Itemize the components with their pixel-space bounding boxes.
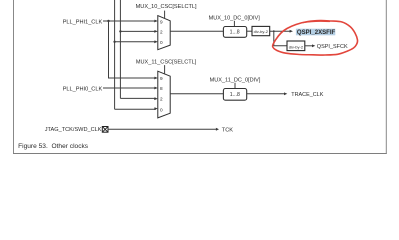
- arrowhead to QSPI_2XSFIF: [290, 30, 293, 33]
- divider box MUX_10_DC_0 (1...8): [223, 27, 246, 38]
- divider MUX_10_DC_0 tick: [233, 21, 235, 27]
- arrowhead into MUX_10 input 0: [154, 40, 158, 43]
- junction dot QSPI branch: [273, 30, 275, 32]
- wire PLL_PHI0_CLK to MUX_11 input 8: [103, 87, 156, 89]
- divider box div-by-2 (QSPI sfck): [287, 41, 305, 51]
- svg-text:TCK: TCK: [222, 127, 233, 133]
- svg-text:div-by-2: div-by-2: [289, 44, 304, 49]
- svg-text:1...8: 1...8: [230, 92, 240, 98]
- wire div-by-2 output: [270, 30, 291, 32]
- svg-text:Figure 53. Other clocks: Figure 53. Other clocks: [18, 143, 89, 150]
- junction dot PLL_PHI1_CLK tap: [107, 20, 109, 22]
- svg-text:2: 2: [160, 30, 163, 35]
- mux MUX_10 select tick: [164, 11, 166, 19]
- svg-text:div-by-2: div-by-2: [254, 29, 269, 34]
- wire v3 corner to MUX_11 input 2: [120, 97, 156, 99]
- svg-text:TRACE_CLK: TRACE_CLK: [291, 92, 323, 98]
- svg-text:QSPI_2XSFIF: QSPI_2XSFIF: [297, 30, 336, 36]
- figure frame right border: [385, 0, 387, 154]
- arrowhead into MUX_10 input 9: [154, 20, 158, 23]
- wire v3 tap to MUX_10 input 2: [120, 30, 156, 32]
- arrowhead to TCK: [216, 128, 219, 131]
- svg-text:MUX_11_DC_0[DIV]: MUX_11_DC_0[DIV]: [210, 78, 261, 84]
- arrowhead into MUX_11 input 2: [154, 97, 158, 100]
- mux MUX_10 trapezoid: [158, 16, 170, 50]
- svg-text:JTAG_TCK/SWD_CLK: JTAG_TCK/SWD_CLK: [45, 127, 102, 133]
- arrowhead to TRACE_CLK: [284, 92, 287, 95]
- figure frame bottom border: [13, 153, 387, 155]
- svg-text:MUX_11_CSC[SELCTL]: MUX_11_CSC[SELCTL]: [136, 60, 197, 66]
- svg-text:QSPI_SFCK: QSPI_SFCK: [317, 44, 348, 50]
- wire MUX_10 output to divider: [170, 30, 223, 32]
- svg-text:MUX_10_CSC[SELCTL]: MUX_10_CSC[SELCTL]: [136, 4, 197, 10]
- svg-text:9: 9: [160, 19, 163, 24]
- figure frame left border: [13, 0, 15, 154]
- wire v2 corner to MUX_11 input 0: [115, 108, 156, 110]
- wire divider to TRACE_CLK: [247, 93, 285, 95]
- svg-text:0: 0: [160, 40, 163, 45]
- arrowhead into MUX_11 input 8: [154, 87, 158, 90]
- wire JTAG_TCK/SWD_CLK to TCK: [108, 128, 216, 130]
- net bus vertical v3 (feeds input 2 of both muxes): [119, 0, 121, 98]
- divider box div-by-2 (QSPI 2x): [252, 26, 270, 35]
- svg-text:PLL_PHI0_CLK: PLL_PHI0_CLK: [63, 87, 103, 93]
- svg-text:2: 2: [160, 97, 163, 102]
- wire branch down to second div-by-2: [274, 31, 287, 46]
- annotation red ellipse around QSPI outputs: [273, 21, 358, 55]
- wire second div-by-2 to QSPI_SFCK: [305, 45, 312, 47]
- svg-text:PLL_PHI1_CLK: PLL_PHI1_CLK: [63, 20, 103, 26]
- highlight behind QSPI_2XSFIF: [296, 29, 335, 36]
- mux MUX_11 trapezoid: [158, 71, 170, 118]
- annotation red ellipse stroke overlap: [303, 21, 330, 22]
- svg-text:8: 8: [160, 86, 163, 91]
- svg-text:1...8: 1...8: [230, 29, 240, 35]
- wire v2 tap to MUX_10 input 0: [115, 41, 156, 43]
- wire divider to div-by-2: [247, 30, 252, 32]
- svg-text:0: 0: [160, 108, 163, 113]
- wire PLL_PHI1_CLK to MUX_10 input 9: [103, 20, 156, 22]
- junction dot v2 to MUX_10 input 0: [113, 41, 115, 43]
- arrowhead into MUX_11 input 0: [154, 107, 158, 110]
- wire v1 PLL_PHI1_CLK down to MUX_11 input 9: [109, 21, 157, 78]
- arrowhead into MUX_10 input 2: [154, 30, 158, 33]
- junction dot v3 to MUX_10 input 2: [119, 30, 121, 32]
- divider box MUX_11_DC_0 (1...8): [223, 89, 246, 101]
- mux MUX_11 select tick: [164, 65, 166, 74]
- arrowhead into MUX_11 input 9: [154, 77, 158, 80]
- divider MUX_11_DC_0 tick: [234, 83, 236, 89]
- pad symbol JTAG_TCK/SWD_CLK: [102, 127, 108, 133]
- svg-text:9: 9: [160, 76, 163, 81]
- wire MUX_11 output to divider: [170, 93, 223, 95]
- arrowhead to QSPI_SFCK: [312, 44, 315, 47]
- svg-text:MUX_10_DC_0[DIV]: MUX_10_DC_0[DIV]: [209, 16, 261, 22]
- net bus vertical v2 (feeds input 0 of both muxes): [114, 0, 116, 109]
